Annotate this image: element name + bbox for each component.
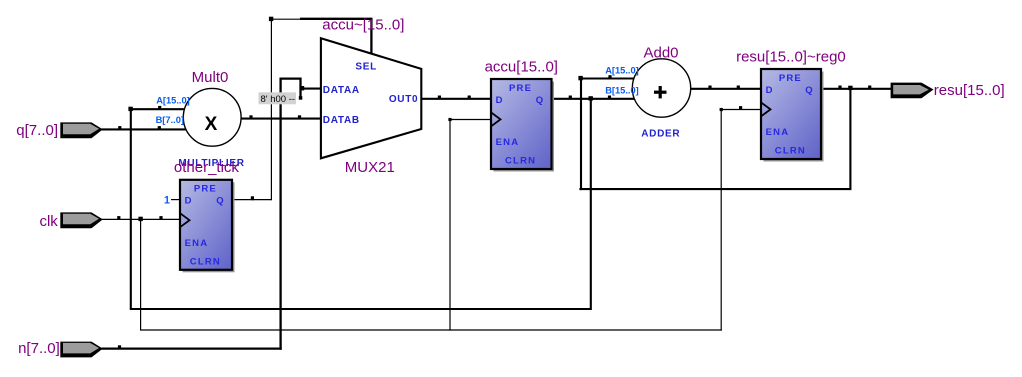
svg-text:CLRN: CLRN bbox=[775, 146, 806, 157]
svg-text:DATAB: DATAB bbox=[323, 115, 360, 126]
svg-text:B[15..0]: B[15..0] bbox=[605, 85, 639, 95]
svg-text:Add0: Add0 bbox=[643, 44, 678, 61]
svg-text:resu[15..0]~reg0: resu[15..0]~reg0 bbox=[736, 48, 846, 65]
svg-text:D: D bbox=[496, 95, 504, 106]
svg-text:Q: Q bbox=[536, 95, 545, 106]
svg-text:n[7..0]: n[7..0] bbox=[18, 340, 60, 357]
svg-text:D: D bbox=[185, 196, 193, 207]
svg-text:CLRN: CLRN bbox=[190, 256, 221, 267]
svg-text:accu~[15..0]: accu~[15..0] bbox=[322, 17, 404, 34]
svg-text:ADDER: ADDER bbox=[641, 129, 680, 140]
svg-text:ENA: ENA bbox=[185, 238, 209, 249]
svg-text:SEL: SEL bbox=[355, 62, 377, 73]
svg-text:resu[15..0]: resu[15..0] bbox=[934, 82, 1005, 99]
svg-text:B[7..0]: B[7..0] bbox=[156, 115, 184, 125]
svg-text:Mult0: Mult0 bbox=[192, 69, 229, 86]
svg-text:MUX21: MUX21 bbox=[345, 159, 395, 176]
svg-text:Q: Q bbox=[805, 85, 814, 96]
svg-text:ENA: ENA bbox=[766, 127, 790, 138]
svg-text:clk: clk bbox=[39, 213, 58, 230]
svg-text:ENA: ENA bbox=[496, 137, 520, 148]
svg-text:PRE: PRE bbox=[779, 73, 802, 84]
svg-text:q[7..0]: q[7..0] bbox=[16, 122, 58, 139]
svg-text:1: 1 bbox=[164, 194, 170, 206]
svg-text:8' h00 --: 8' h00 -- bbox=[261, 94, 296, 105]
svg-text:PRE: PRE bbox=[509, 83, 532, 94]
svg-text:Q: Q bbox=[216, 196, 225, 207]
svg-text:DATAA: DATAA bbox=[323, 85, 360, 96]
svg-text:A[15..0]: A[15..0] bbox=[605, 66, 639, 76]
svg-text:PRE: PRE bbox=[194, 184, 217, 195]
svg-text:accu[15..0]: accu[15..0] bbox=[485, 58, 558, 75]
svg-text:OUT0: OUT0 bbox=[389, 94, 418, 105]
svg-text:A[15..0]: A[15..0] bbox=[156, 96, 190, 106]
svg-text:D: D bbox=[766, 85, 774, 96]
svg-text:CLRN: CLRN bbox=[505, 156, 536, 167]
svg-text:other_tick: other_tick bbox=[174, 159, 240, 176]
svg-text:X: X bbox=[205, 114, 218, 135]
